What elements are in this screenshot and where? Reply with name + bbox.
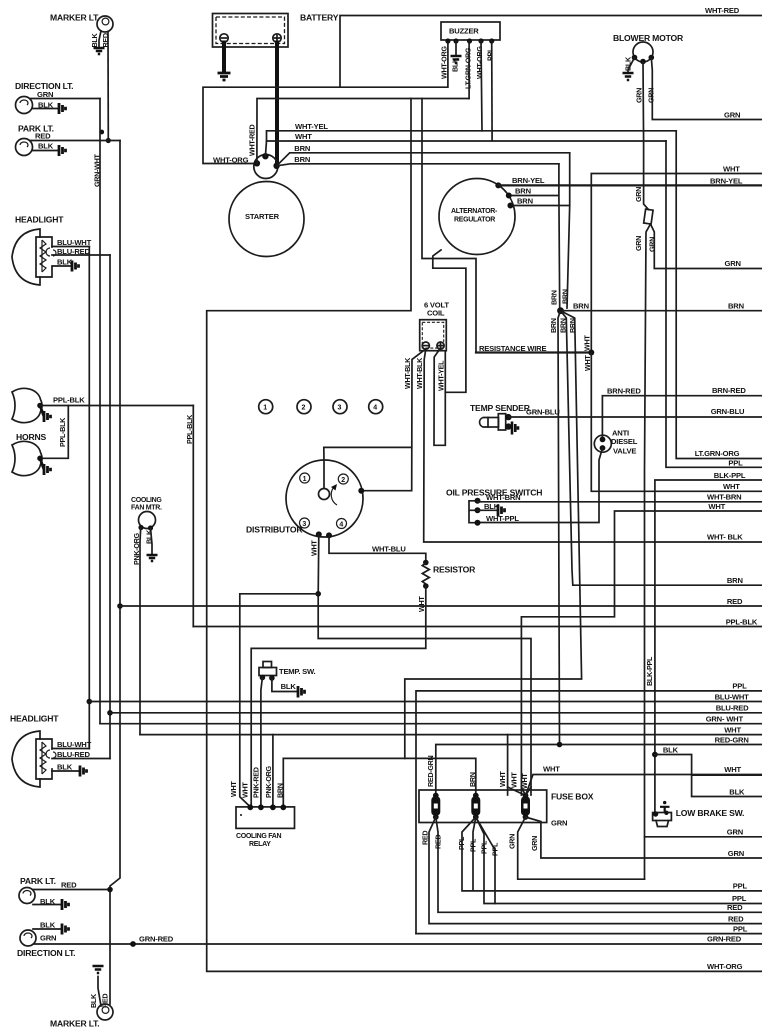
svg-text:WHT: WHT <box>498 771 507 787</box>
svg-text:BRN: BRN <box>468 772 477 787</box>
svg-text:COOLING: COOLING <box>131 497 162 504</box>
wire PPL line (from fuse area riser) <box>416 691 762 934</box>
svg-text:DISTRIBUTOR: DISTRIBUTOR <box>246 525 303 535</box>
ground (battery) <box>218 73 231 80</box>
park light 2 bulb <box>19 888 35 904</box>
node BLU-RED tee <box>107 710 113 716</box>
svg-text:STARTER: STARTER <box>245 212 280 221</box>
node WHT-RED tee <box>340 16 762 88</box>
svg-text:BRN: BRN <box>517 197 533 206</box>
node GRN-RED junction <box>130 941 136 947</box>
direction light (top) bulb <box>16 97 33 114</box>
svg-text:TEMP. SW.: TEMP. SW. <box>279 667 316 676</box>
wire WHT-RED riser from solenoid <box>257 99 469 164</box>
node resistance wire / WHT junction <box>588 350 594 356</box>
cooling fan motor <box>139 512 156 529</box>
wire headlight1 BLU-WHT <box>52 246 89 248</box>
wire WHT from junction down to WHT right line <box>591 353 762 492</box>
node marker-RED / park-RED junction <box>106 138 111 143</box>
svg-text:WHT: WHT <box>543 765 560 774</box>
wire buzzer PPL <box>491 41 493 141</box>
distributor 3 <box>300 518 310 528</box>
wire starter BRN upper to alternator BRN2 and junction riser <box>514 153 570 308</box>
svg-text:REGULATOR: REGULATOR <box>454 217 495 224</box>
wire headlight2 BLU-WHT <box>52 748 89 750</box>
wire horns PPL-BLK horizontal <box>40 405 193 407</box>
WHT corner line to right edge <box>591 174 762 353</box>
svg-text:PPL: PPL <box>486 47 495 61</box>
svg-text:GRN: GRN <box>508 834 517 849</box>
node circle 1 <box>259 400 273 414</box>
wire WHT from solenoid <box>267 140 667 142</box>
svg-text:HORNS: HORNS <box>16 432 47 442</box>
node oil switch BLK <box>475 507 481 513</box>
svg-text:WHT: WHT <box>708 502 725 511</box>
ground (marker top) <box>94 48 105 54</box>
svg-text:BRN: BRN <box>550 290 559 305</box>
wire BRN drop 3 (to temp switch loop) <box>405 311 582 759</box>
battery B1 <box>213 14 289 48</box>
svg-text:GRN: GRN <box>634 236 643 251</box>
node starter top terminal <box>262 153 268 159</box>
ground (temp sender, right-facing) <box>512 422 518 435</box>
distributor 4 <box>337 519 347 529</box>
svg-text:DIRECTION LT.: DIRECTION LT. <box>17 948 75 958</box>
svg-text:GRN: GRN <box>727 827 743 836</box>
node RED tee on park riser <box>117 603 123 609</box>
svg-text:BLOWER MOTOR: BLOWER MOTOR <box>613 33 684 43</box>
svg-text:BRN: BRN <box>294 144 310 153</box>
wire headlight1 BLU-RED <box>52 254 110 256</box>
wire distributor cap feed (top) <box>324 447 412 488</box>
svg-text:BLK: BLK <box>729 787 745 796</box>
svg-text:PPL: PPL <box>732 681 747 690</box>
svg-text:GRN: GRN <box>725 259 741 268</box>
wire buzzer WHT-ORG 2 <box>481 41 482 131</box>
wire BLK to WHT/BLK right edge <box>655 755 762 797</box>
svg-text:WHT-PPL: WHT-PPL <box>486 514 519 523</box>
svg-text:BLK: BLK <box>38 142 54 151</box>
svg-text:WHT: WHT <box>510 772 519 788</box>
wire park-RED vertical (to bottom lamps) <box>110 141 120 1005</box>
svg-text:GRN: GRN <box>551 819 567 828</box>
node starter WHT-ORG terminal <box>254 160 260 166</box>
svg-text:RESISTOR: RESISTOR <box>433 565 476 575</box>
resistor R1 <box>422 563 429 586</box>
wire RED line <box>120 605 762 607</box>
svg-text:FAN MTR.: FAN MTR. <box>131 505 162 512</box>
wire BRN lower from battery terminal node <box>277 164 559 166</box>
node park2 junction <box>107 887 113 893</box>
cooling fan relay box <box>236 807 295 829</box>
temp switch body <box>259 668 277 676</box>
svg-text:GRN-RED: GRN-RED <box>707 934 742 943</box>
wire direction GRN <box>30 98 100 100</box>
wire headlight2 BLK to ground <box>52 770 80 772</box>
wire below resistor to GRN line (right) <box>651 224 762 269</box>
svg-text:3: 3 <box>302 521 306 528</box>
wire buzzer BLK to ground <box>455 41 457 55</box>
wire coil - to distributor (WHT-BLK 1) <box>361 349 426 491</box>
svg-text:BRN: BRN <box>549 318 558 333</box>
fuse F1 <box>431 793 440 820</box>
wire marker BLK to ground <box>99 31 101 47</box>
wire park RED <box>30 140 120 142</box>
svg-text:GRN: GRN <box>724 111 740 120</box>
park light (top) bulb <box>16 139 33 156</box>
node distributor bottom terminal WHT <box>316 531 322 537</box>
svg-text:3: 3 <box>338 405 342 412</box>
node resistor top <box>423 560 429 566</box>
svg-text:WHT-ORG: WHT-ORG <box>475 46 484 79</box>
wire blower GRN right terminal to GRN line <box>651 58 762 120</box>
wire BRN upper from battery terminal node <box>277 153 570 166</box>
svg-text:BRN: BRN <box>573 302 589 311</box>
svg-text:2: 2 <box>302 405 306 412</box>
svg-text:WHT: WHT <box>723 482 740 491</box>
oil pressure switch body <box>469 501 478 523</box>
wire direction BLK to ground <box>32 108 59 110</box>
svg-text:BLK: BLK <box>89 993 98 1008</box>
svg-text:WHT-BRN: WHT-BRN <box>707 493 741 502</box>
wire GRN-WHT vertical <box>99 99 101 724</box>
node distributor WHT junction <box>315 591 321 597</box>
wire BRN drop 1 (to RED-GRN / fuse 1 feed) <box>558 311 561 745</box>
svg-text:PARK LT.: PARK LT. <box>20 876 56 886</box>
wire BRN-YEL to right edge <box>498 184 762 186</box>
svg-text:BRN: BRN <box>561 289 570 304</box>
wire BRN-RED <box>602 396 762 436</box>
svg-text:BLK-PPL: BLK-PPL <box>645 656 654 686</box>
svg-text:PPL-BLK: PPL-BLK <box>58 417 67 447</box>
svg-text:PPL: PPL <box>733 881 748 890</box>
svg-text:WHT- BLK: WHT- BLK <box>707 533 743 542</box>
node alternator BRN 1 <box>506 193 512 199</box>
svg-text:BRN-YEL: BRN-YEL <box>512 176 545 185</box>
ground (direction2, right-facing) <box>62 924 69 935</box>
svg-text:PPL: PPL <box>732 894 747 903</box>
wire blower GRN center terminal down to resistor <box>643 62 649 210</box>
svg-text:WHT-ORG: WHT-ORG <box>440 46 449 79</box>
distributor 1 <box>300 473 310 483</box>
ground (blower) <box>623 73 634 80</box>
wire temp switch PNK-RED to relay <box>261 678 263 807</box>
svg-text:COIL: COIL <box>427 309 445 318</box>
ground (headlight2, right-facing) <box>80 766 87 777</box>
ground (park2, right-facing) <box>62 899 69 910</box>
fuse F3 <box>521 793 530 820</box>
svg-text:WHT-BRN: WHT-BRN <box>486 493 520 502</box>
svg-text:WHT-BLU: WHT-BLU <box>372 545 406 554</box>
svg-text:GRN: GRN <box>634 187 643 202</box>
wire GRN-BLU to right edge <box>509 416 762 418</box>
wire fuse3 GRN left drop <box>518 817 645 879</box>
wire LT.GRN-ORG (from starter WHT-YEL riser) <box>676 131 762 459</box>
distributor body <box>286 460 363 537</box>
svg-text:PPL: PPL <box>480 840 489 854</box>
wire GRN main vertical to right edge (y=836) <box>645 836 762 838</box>
wire starter BRN lower to alternator BRN1 and junction riser <box>512 164 560 308</box>
temp sender body <box>480 414 506 430</box>
starter motor <box>229 182 304 257</box>
svg-text:LT.GRN-ORG: LT.GRN-ORG <box>464 47 473 89</box>
svg-text:GRN: GRN <box>728 849 744 858</box>
wire buzzer LT.GRN-ORG to ignition feed <box>468 41 470 99</box>
svg-text:WHT: WHT <box>724 765 741 774</box>
horn 2 <box>12 441 42 475</box>
svg-text:RED: RED <box>728 914 744 923</box>
svg-text:LOW BRAKE SW.: LOW BRAKE SW. <box>676 808 745 818</box>
svg-text:RED: RED <box>434 835 443 849</box>
wire fuse3 diagonal to WHT line <box>526 775 762 796</box>
svg-text:GRN: GRN <box>647 88 656 103</box>
blower motor <box>633 42 653 62</box>
wire park2 BLK to ground <box>33 904 62 906</box>
svg-text:BATTERY: BATTERY <box>300 13 339 23</box>
svg-text:PNK-RED: PNK-RED <box>252 767 261 798</box>
ground (fan motor) <box>147 555 158 561</box>
svg-text:WHT-BLK: WHT-BLK <box>415 357 424 389</box>
wire PPL-BLK riser to fuse area <box>192 406 194 627</box>
wire PPL riser bottom corner to right edge (y=933) <box>416 933 762 935</box>
wire coil + to WHT-YEL drop <box>434 348 445 445</box>
wire WHT-BRN to right edge <box>478 501 762 503</box>
svg-text:LT.GRN-ORG: LT.GRN-ORG <box>695 449 740 458</box>
svg-text:PNK-ORG: PNK-ORG <box>264 765 273 798</box>
wire coil - to WHT-BLK right line (WHT-BLK 2) <box>424 349 762 542</box>
svg-text:BRN: BRN <box>294 155 310 164</box>
node circle 2 <box>297 400 311 414</box>
wire fuse2 PPL drops <box>462 817 762 891</box>
wire marker2 BLK to ground <box>98 977 101 1007</box>
ground (park top, right-facing) <box>59 145 66 156</box>
svg-text:ALTERNATOR-: ALTERNATOR- <box>451 208 498 215</box>
svg-text:RED: RED <box>61 881 77 890</box>
svg-text:RED: RED <box>101 994 110 1008</box>
wire marker RED vertical <box>107 32 109 141</box>
wire resistor WHT to relay <box>251 586 426 807</box>
ground (direction top, right-facing) <box>59 103 66 114</box>
svg-text:WHT-ORG: WHT-ORG <box>707 962 743 971</box>
svg-text:DIESEL: DIESEL <box>611 437 638 446</box>
svg-text:WHT: WHT <box>310 540 319 556</box>
svg-text:BUZZER: BUZZER <box>449 27 479 36</box>
svg-text:1: 1 <box>263 405 267 412</box>
relay terminal nodes <box>247 804 253 810</box>
wire direction2 BLK to ground <box>33 928 62 930</box>
node alternator BRN 2 <box>507 203 513 209</box>
wire fuse3 feeds converge <box>508 787 531 796</box>
svg-text:WHT: WHT <box>723 164 740 173</box>
node BRN splice <box>557 307 564 314</box>
wire distributor WHT-BLU to resistor <box>329 535 426 560</box>
ground (temp switch, right-facing) <box>298 686 305 698</box>
blower resistor <box>644 209 653 224</box>
alternator-regulator <box>439 179 515 255</box>
svg-text:GRN: GRN <box>635 88 644 103</box>
node starter battery terminal <box>273 163 279 169</box>
node on GRN-WHT line <box>99 130 104 135</box>
wire valve to oil pressure switch WHT-PPL <box>480 448 603 523</box>
svg-text:TEMP SENDER: TEMP SENDER <box>470 403 531 413</box>
svg-text:WHT: WHT <box>295 132 312 141</box>
wire PNK-ORG vertical <box>139 528 142 735</box>
svg-text:RED-GRN: RED-GRN <box>426 755 435 787</box>
svg-text:PPL: PPL <box>469 838 478 852</box>
wire oil switch BLK to ground <box>478 509 498 511</box>
svg-text:BRN: BRN <box>727 576 743 585</box>
wire battery positive to starter (thick) <box>275 43 279 165</box>
svg-text:RED-GRN: RED-GRN <box>715 735 749 744</box>
ground (headlight1, right-facing) <box>72 261 79 272</box>
svg-text:GRN: GRN <box>530 836 539 851</box>
node distributor side terminal <box>358 488 364 494</box>
svg-text:BRN-YEL: BRN-YEL <box>710 176 743 185</box>
svg-text:BRN-RED: BRN-RED <box>712 386 746 395</box>
wire fuse3 GRN stub <box>526 817 762 858</box>
wire WHT drop to fuse 3 <box>507 735 509 795</box>
wire BLU-WHT line <box>89 701 762 703</box>
svg-text:GRN-BLU: GRN-BLU <box>711 407 745 416</box>
svg-text:GRN-RED: GRN-RED <box>139 935 174 944</box>
svg-text:2: 2 <box>341 477 345 484</box>
node resistor bottom <box>423 583 429 589</box>
starter solenoid <box>254 155 278 179</box>
ground (horn2) <box>40 458 51 475</box>
node distributor bottom terminal WHT-BLU <box>326 532 332 538</box>
svg-text:WHT: WHT <box>724 725 741 734</box>
wire BLK-PPL (right edge to low brake switch) <box>655 480 762 814</box>
coil positive terminal <box>437 342 444 349</box>
wire horn2 branch <box>43 406 68 459</box>
wire alternator bottom left chain <box>433 250 466 392</box>
wire buzzer WHT-ORG loop (t1 down, left, to solenoid) <box>203 40 448 164</box>
wire headlight2 BLU-RED <box>52 758 110 760</box>
svg-text:BRN: BRN <box>515 187 531 196</box>
coil negative terminal <box>422 342 429 349</box>
svg-text:PPL: PPL <box>733 924 748 933</box>
node temp switch left <box>260 675 266 681</box>
node temp sender terminal <box>505 414 511 420</box>
wire BLU-RED vertical (headlight1 to headlight2) <box>109 255 111 759</box>
wire GRN-RED line <box>34 943 762 945</box>
wire PPL-BLK line <box>193 626 762 628</box>
svg-text:BRN: BRN <box>728 301 744 310</box>
marker light 2 ground <box>93 966 104 973</box>
svg-text:MARKER LT.: MARKER LT. <box>50 1019 99 1029</box>
svg-text:WHT: WHT <box>583 335 592 351</box>
svg-text:HEADLIGHT: HEADLIGHT <box>10 714 59 724</box>
svg-text:BLK-PPL: BLK-PPL <box>714 471 746 480</box>
svg-text:WHT-RED: WHT-RED <box>705 6 740 15</box>
distributor 2 <box>338 474 348 484</box>
ground (oil switch, right-facing) <box>498 505 505 517</box>
svg-text:VALVE: VALVE <box>613 447 636 456</box>
svg-text:BLK: BLK <box>281 682 297 691</box>
wire fan motor BLK to ground <box>151 528 153 554</box>
svg-text:PPL: PPL <box>491 842 500 856</box>
wire fuse1 RED drops <box>429 817 762 924</box>
node temp sender ground terminal <box>505 423 511 429</box>
WHT right edge y=511 <box>521 511 762 795</box>
svg-text:WHT: WHT <box>417 596 426 612</box>
wire headlight1 BLK to ground <box>52 265 72 267</box>
ground (buzzer) <box>451 56 462 63</box>
svg-text:WHT: WHT <box>229 781 238 797</box>
wire relay BRN to fuse 2 <box>283 758 476 807</box>
svg-text:BLK: BLK <box>663 746 679 755</box>
svg-text:RED: RED <box>35 132 51 141</box>
svg-text:PPL-BLK: PPL-BLK <box>53 396 85 405</box>
wire battery negative to ground <box>222 43 226 73</box>
svg-text:RED: RED <box>421 831 430 845</box>
node alternator BRN-YEL <box>495 182 501 188</box>
distributor rotor arrow <box>331 487 337 505</box>
wire RED-GRN line (fuse1 feed) <box>436 745 762 795</box>
svg-text:COOLING FAN: COOLING FAN <box>236 833 282 840</box>
svg-text:BLK: BLK <box>90 33 99 48</box>
svg-text:RED: RED <box>727 597 743 606</box>
node BLU-WHT tee <box>87 699 93 705</box>
svg-text:RELAY: RELAY <box>249 841 271 848</box>
svg-text:GRN- WHT: GRN- WHT <box>706 715 744 724</box>
svg-text:WHT-BLK: WHT-BLK <box>403 357 412 389</box>
wire GRN-WHT line <box>100 723 762 725</box>
svg-text:GRN: GRN <box>648 237 657 252</box>
svg-text:PPL: PPL <box>728 458 743 467</box>
ground (horn1) <box>40 406 51 423</box>
wire park BLK to ground <box>32 150 59 152</box>
wire relay WHT branch <box>240 594 318 807</box>
buzzer terminal nodes <box>445 38 450 43</box>
wire below resistor main GRN vertical <box>645 224 651 879</box>
low brake switch symbol <box>653 801 672 827</box>
anti diesel valve <box>594 435 611 452</box>
horn 1 <box>12 388 42 422</box>
node circle 3 <box>333 400 347 414</box>
wire blower BLK to ground <box>628 58 635 73</box>
svg-text:PPL: PPL <box>457 836 466 850</box>
svg-text:1: 1 <box>303 476 307 483</box>
wire PNK-ORG / WHT line <box>140 734 762 736</box>
wire BRN junction to right edge <box>561 310 762 312</box>
svg-text:MARKER LT.: MARKER LT. <box>50 13 99 23</box>
svg-text:BRN: BRN <box>276 783 285 798</box>
svg-text:WHT-YEL: WHT-YEL <box>295 122 328 131</box>
fuse F2 <box>471 793 480 820</box>
wire BLU-WHT vertical (headlight1 to headlight2) <box>88 247 90 749</box>
node RED-GRN / BRN drop junction <box>557 742 563 748</box>
headlight2 symbol <box>12 731 56 787</box>
node circle 4 <box>369 400 383 414</box>
node oil switch WHT-BRN <box>475 498 481 504</box>
svg-text:GRN: GRN <box>40 933 56 942</box>
wire PNK-ORG drop to relay <box>272 735 274 807</box>
svg-text:BLU-WHT: BLU-WHT <box>715 692 750 701</box>
wire BLU-RED line <box>110 712 762 714</box>
direction light 2 bulb <box>20 930 36 946</box>
svg-text:WHT: WHT <box>241 782 250 798</box>
wire ignition feed drop (x=422) <box>422 99 476 353</box>
node BLK tee on BLK-PPL <box>652 752 658 758</box>
wire WHT-YEL from solenoid <box>265 131 676 156</box>
wire distributor WHT down <box>318 534 531 795</box>
marker light (top) bulb <box>97 16 113 32</box>
marker light 2 bulb <box>97 1004 113 1020</box>
svg-text:GRN-BLU: GRN-BLU <box>526 408 560 417</box>
wire WHT-ORG box chain (x=411 to bottom WHT-ORG) <box>207 99 762 972</box>
svg-text:BRN-RED: BRN-RED <box>607 386 641 395</box>
